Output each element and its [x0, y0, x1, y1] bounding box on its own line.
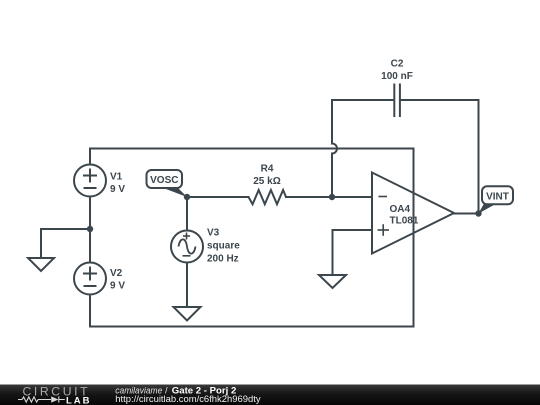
node VOSC flag [147, 170, 188, 197]
ground (between V1 and V2) [28, 258, 54, 271]
wire V1 bottom lead to node between sources [89, 197, 91, 230]
op-amp OA4 TL081 [372, 173, 454, 254]
svg-text:V1: V1 [110, 172, 123, 183]
voltage source V2 [74, 263, 106, 295]
capacitor C2 [394, 84, 400, 118]
wire VOSC node to V3 top [186, 197, 188, 231]
wire C2 right branch down to output node [478, 100, 480, 214]
svg-text:R4: R4 [261, 164, 274, 175]
svg-text:OA4: OA4 [390, 204, 411, 215]
wire op-amp plus input to ground [333, 230, 373, 275]
wire V3 bottom lead to its ground [186, 263, 188, 308]
svg-text:V2: V2 [110, 268, 123, 279]
node junction dot VOSC [184, 194, 190, 200]
wire top rail from V1 top to right vertical [90, 149, 414, 165]
ground (op-amp non-inverting input) [319, 275, 346, 288]
svg-text:LAB: LAB [66, 395, 92, 405]
wire R4 right lead to op-amp inverting input [286, 196, 372, 198]
wire right vertical rail down to bottom rail [413, 149, 415, 327]
wire feedback branch: minus-input node up to C2 left, with hop over supply wire [332, 100, 337, 197]
CircuitLab logo: resistor-diode symbol [18, 396, 65, 402]
wire V2 bottom lead to bottom rail [89, 295, 91, 327]
svg-text:http://circuitlab.com/c6fhk2h9: http://circuitlab.com/c6fhk2h969dty [115, 394, 261, 404]
node VINT flag [479, 186, 514, 213]
node junction dot at op-amp inverting input branch [329, 194, 335, 200]
svg-text:200 Hz: 200 Hz [207, 254, 239, 265]
wire op-amp output to VINT node [454, 213, 479, 215]
wire ground tap from node between V1 and V2 [41, 229, 90, 258]
footer bar [0, 385, 540, 405]
resistor R4 [249, 190, 287, 204]
wire VOSC node to R4 left lead [187, 196, 249, 198]
svg-text:TL081: TL081 [390, 216, 419, 227]
svg-text:100 nF: 100 nF [381, 71, 413, 82]
svg-text:C2: C2 [391, 59, 404, 70]
wire C2 left plate lead [332, 99, 393, 101]
wire C2 right plate lead to right corner [401, 99, 479, 101]
svg-text:VINT: VINT [486, 191, 509, 202]
node junction dot VINT (output) [475, 210, 481, 216]
svg-text:9 V: 9 V [110, 184, 125, 195]
svg-text:9 V: 9 V [110, 281, 125, 292]
svg-text:square: square [207, 241, 240, 252]
node junction dot between V1 and V2 [87, 226, 93, 232]
voltage source V1 [74, 165, 106, 197]
svg-text:V3: V3 [207, 228, 220, 239]
wire V2 top lead from node [89, 229, 91, 262]
ground (V3) [174, 307, 201, 321]
svg-text:VOSC: VOSC [150, 175, 178, 186]
wire bottom rail [90, 326, 414, 328]
voltage source V3 (square 200 Hz) [171, 231, 203, 263]
svg-text:25 kΩ: 25 kΩ [253, 176, 280, 187]
